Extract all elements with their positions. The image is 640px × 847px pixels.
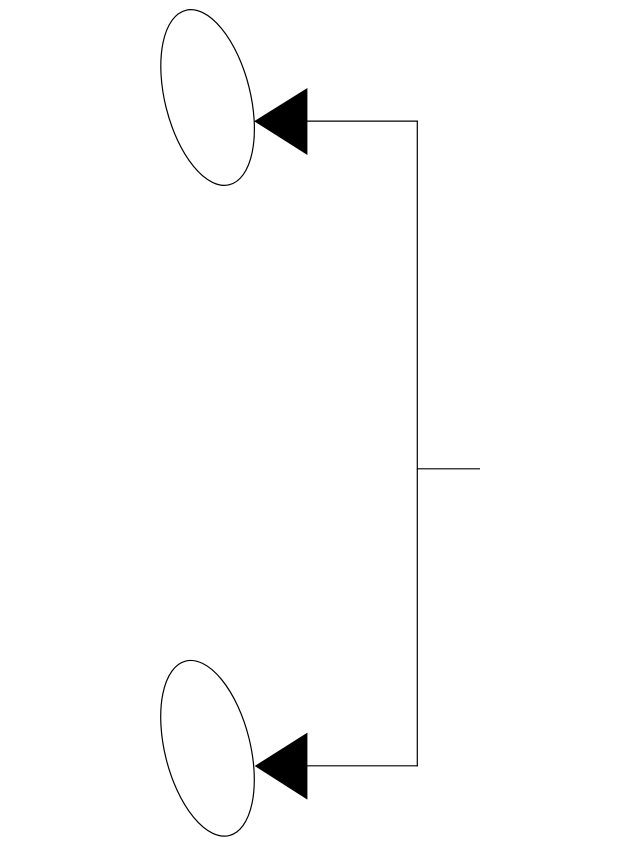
arrowhead bottom [255, 733, 308, 800]
wire bottom horizontal [307, 765, 418, 767]
wire vertical [416, 121, 418, 767]
ellipse node bottom [144, 651, 270, 846]
arrowhead top [254, 88, 307, 155]
wire stub [417, 468, 480, 470]
ellipse node top [144, 0, 270, 195]
wire top horizontal [307, 120, 418, 122]
